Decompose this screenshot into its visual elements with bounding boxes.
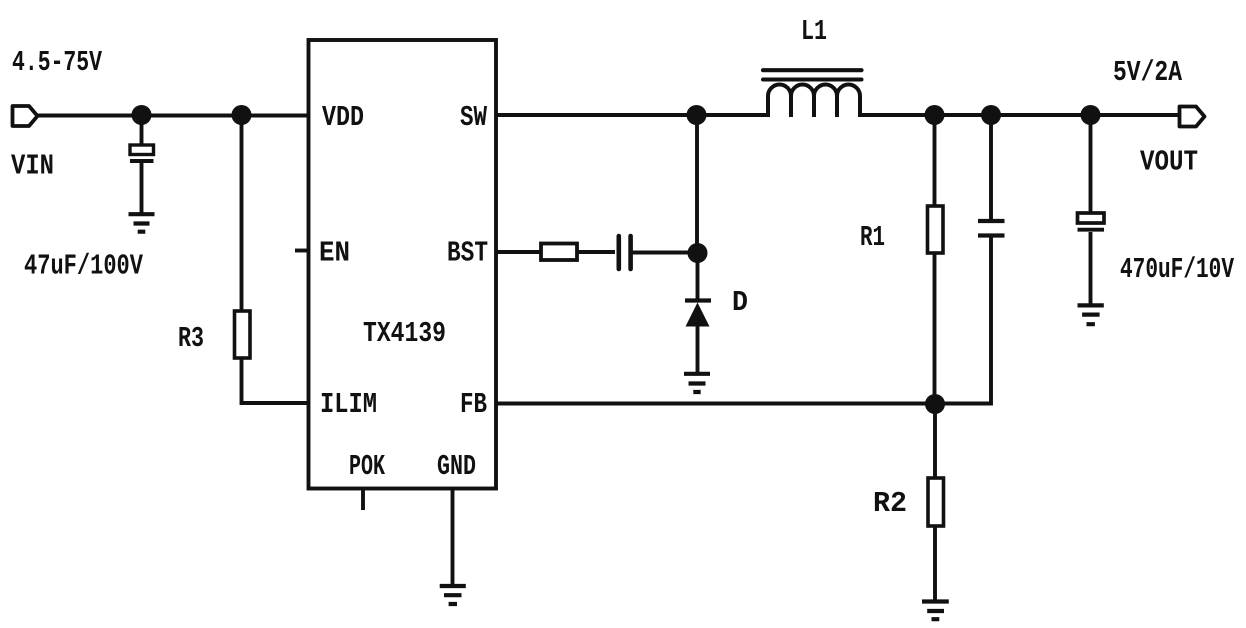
wire FB to FB node xyxy=(496,402,935,406)
svg-text:VIN: VIN xyxy=(11,150,54,183)
node input cap junction xyxy=(132,105,152,125)
pin EN stub xyxy=(295,249,309,253)
resistor R3 xyxy=(235,311,251,358)
wire node to R1 xyxy=(933,115,937,207)
wire C-in to ground xyxy=(140,163,144,214)
wire SW node down to BST node xyxy=(695,115,699,253)
wire node to feedforward cap xyxy=(989,115,993,220)
wire inductor to VOUT xyxy=(860,113,1180,117)
wire resistor to cap xyxy=(578,250,616,254)
wire cap to BST node xyxy=(633,251,698,255)
wire feedforward cap to FB node xyxy=(935,238,991,404)
svg-text:R3: R3 xyxy=(178,322,204,355)
terminal VIN xyxy=(13,106,38,126)
wire SW to inductor xyxy=(496,113,769,117)
wire VIN to VDD xyxy=(37,114,309,118)
ground C-out xyxy=(1078,305,1104,324)
resistor R2 xyxy=(928,478,944,526)
wire R3 to ILIM xyxy=(242,358,309,403)
wire GND pin to ground xyxy=(451,489,455,587)
node R1 junction xyxy=(925,105,945,125)
svg-text:SW: SW xyxy=(460,101,487,134)
wire junction to R3 xyxy=(240,115,244,312)
svg-text:R2: R2 xyxy=(873,487,907,520)
wire node to C-out xyxy=(1089,115,1093,214)
inductor L1 coil xyxy=(768,85,860,118)
inductor L1 core bars xyxy=(763,70,862,79)
svg-text:ILIM: ILIM xyxy=(320,388,377,421)
svg-text:D: D xyxy=(732,286,748,319)
wire junction to C-in xyxy=(140,115,144,146)
svg-text:47uF/100V: 47uF/100V xyxy=(24,250,143,283)
pin POK stub xyxy=(361,489,365,511)
node BST junction xyxy=(688,243,708,263)
svg-text:470uF/10V: 470uF/10V xyxy=(1120,253,1234,286)
svg-text:5V/2A: 5V/2A xyxy=(1113,56,1182,89)
op-amp U1 TX4139 IC body xyxy=(309,40,497,489)
wire BST to series resistor xyxy=(496,250,541,254)
resistor R1 xyxy=(928,206,944,253)
svg-text:FB: FB xyxy=(460,388,487,421)
capacitor feedforward xyxy=(978,221,1005,236)
svg-text:VDD: VDD xyxy=(322,101,364,134)
resistor BST series xyxy=(541,244,577,261)
node output cap junction xyxy=(1081,105,1101,125)
svg-text:POK: POK xyxy=(349,450,385,483)
svg-text:TX4139: TX4139 xyxy=(363,317,446,350)
ground diode xyxy=(684,374,710,392)
ground R2 xyxy=(922,602,949,620)
ground C-in xyxy=(129,214,155,232)
svg-text:EN: EN xyxy=(319,237,350,270)
svg-text:BST: BST xyxy=(447,237,488,270)
wire R2 to ground xyxy=(933,526,937,602)
node FB junction xyxy=(925,394,945,414)
svg-text:R1: R1 xyxy=(860,221,885,254)
node SW junction xyxy=(687,105,707,125)
wire BST node to diode xyxy=(696,253,700,300)
svg-text:VOUT: VOUT xyxy=(1140,146,1198,179)
capacitor C-out 470uF/10V xyxy=(1078,213,1105,230)
capacitor BST series xyxy=(619,236,631,269)
node R3/VDD junction xyxy=(232,105,252,125)
ground IC GND xyxy=(440,586,466,604)
svg-text:L1: L1 xyxy=(801,15,827,48)
wire C-out to ground xyxy=(1089,232,1093,305)
wire FB node to R2 xyxy=(933,404,937,479)
capacitor C-in 47uF/100V xyxy=(130,145,154,161)
wire diode to ground xyxy=(696,326,700,374)
svg-text:GND: GND xyxy=(437,450,476,483)
svg-text:4.5-75V: 4.5-75V xyxy=(12,46,102,79)
wire R1 to FB node xyxy=(933,253,937,404)
terminal VOUT xyxy=(1180,107,1205,127)
diode D xyxy=(685,301,711,327)
node feedforward cap junction xyxy=(981,105,1001,125)
